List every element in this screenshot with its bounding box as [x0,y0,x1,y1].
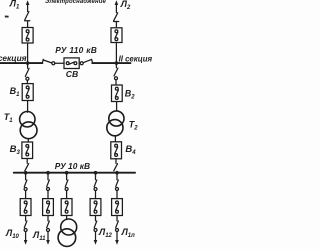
breaker B1 box [22,84,33,101]
feeder L1n: lower disconnector [116,216,118,221]
breaker B4 box [111,142,122,159]
L2 switch box (OD) [111,28,122,43]
svg-text:Л1: Л1 [9,0,20,11]
station transformer TSN [66,216,68,220]
svg-text:Л11: Л11 [32,230,46,242]
svg-text:Т2: Т2 [129,119,139,131]
svg-text:РУ 110 кВ: РУ 110 кВ [55,45,97,55]
bus section II [92,62,130,64]
line L2 incoming wire with up arrow [115,3,117,13]
feeder L1n: outgoing arrow [116,232,118,242]
feeder L11: lower disconnector [47,216,49,221]
wire T2 to B4 [114,136,116,142]
wire L1 box to bus I [27,43,29,62]
svg-text:Л2: Л2 [120,0,131,11]
svg-text:II секция: II секция [119,54,153,63]
disconnector above B4 [115,64,117,68]
bus tie disconnector right [80,62,83,65]
disconnector above B1 [27,64,29,68]
disconnector on L1 [25,12,29,20]
feeder L12: outgoing arrow [95,232,97,242]
feeder L10: disconnector [25,174,27,180]
feeder L11: outgoing arrow [47,232,49,242]
bus section I [0,62,42,64]
disconnector below B3 [26,159,28,164]
transformer T2 [109,111,124,126]
feeder L10: outgoing arrow [25,232,27,242]
svg-text:В3: В3 [10,144,21,156]
svg-text:Л10: Л10 [5,228,20,240]
wire B2 to T2 [116,102,118,111]
breaker SV box [64,58,79,69]
svg-text:СВ: СВ [66,69,78,79]
line L1 incoming wire with up arrow [27,3,29,12]
bus tie disconnector left [42,59,43,63]
wire L2 box to bus II [115,43,117,63]
feeder L1n: breaker box [112,199,123,216]
disconnector on L2 [114,13,118,21]
junction on bus II [115,61,119,65]
feeder L10: lower disconnector [25,216,27,221]
feeder L11: breaker box [43,199,54,216]
feeder L10: breaker box [20,199,31,216]
wire B1 to T1 [27,101,29,113]
svg-text:секция: секция [0,53,27,63]
feeder L1n: disconnector [116,174,118,180]
feeder L12: disconnector [95,174,97,180]
feeder L12: breaker box [90,199,101,216]
svg-text:В1: В1 [10,86,21,98]
feeder L11: disconnector [47,174,49,180]
svg-text:РУ 10 кВ: РУ 10 кВ [55,161,90,171]
junction dots on 10 kV bus [24,171,28,175]
wire T1 to B3 [27,139,29,142]
feeder TSN: disconnector [66,174,68,180]
transformer T1 [20,112,35,127]
svg-text:В4: В4 [125,144,136,156]
feeder L12: lower disconnector [95,216,97,221]
svg-text:Т1: Т1 [4,112,14,124]
disconnector below B4 [115,159,117,164]
L1 switch box (OD) [22,28,33,44]
bus 10 kV [14,172,135,174]
svg-text:Л12: Л12 [98,227,113,239]
feeder TSN: breaker box [61,199,72,216]
breaker B3 box [22,142,33,159]
svg-text:Электроснабжение: Электроснабжение [45,0,106,5]
breaker B2 box [112,85,123,102]
svg-text:Л1п: Л1п [121,227,136,239]
svg-text:В2: В2 [125,88,136,100]
stray dash mark [5,16,9,18]
junction on bus I [26,61,30,65]
